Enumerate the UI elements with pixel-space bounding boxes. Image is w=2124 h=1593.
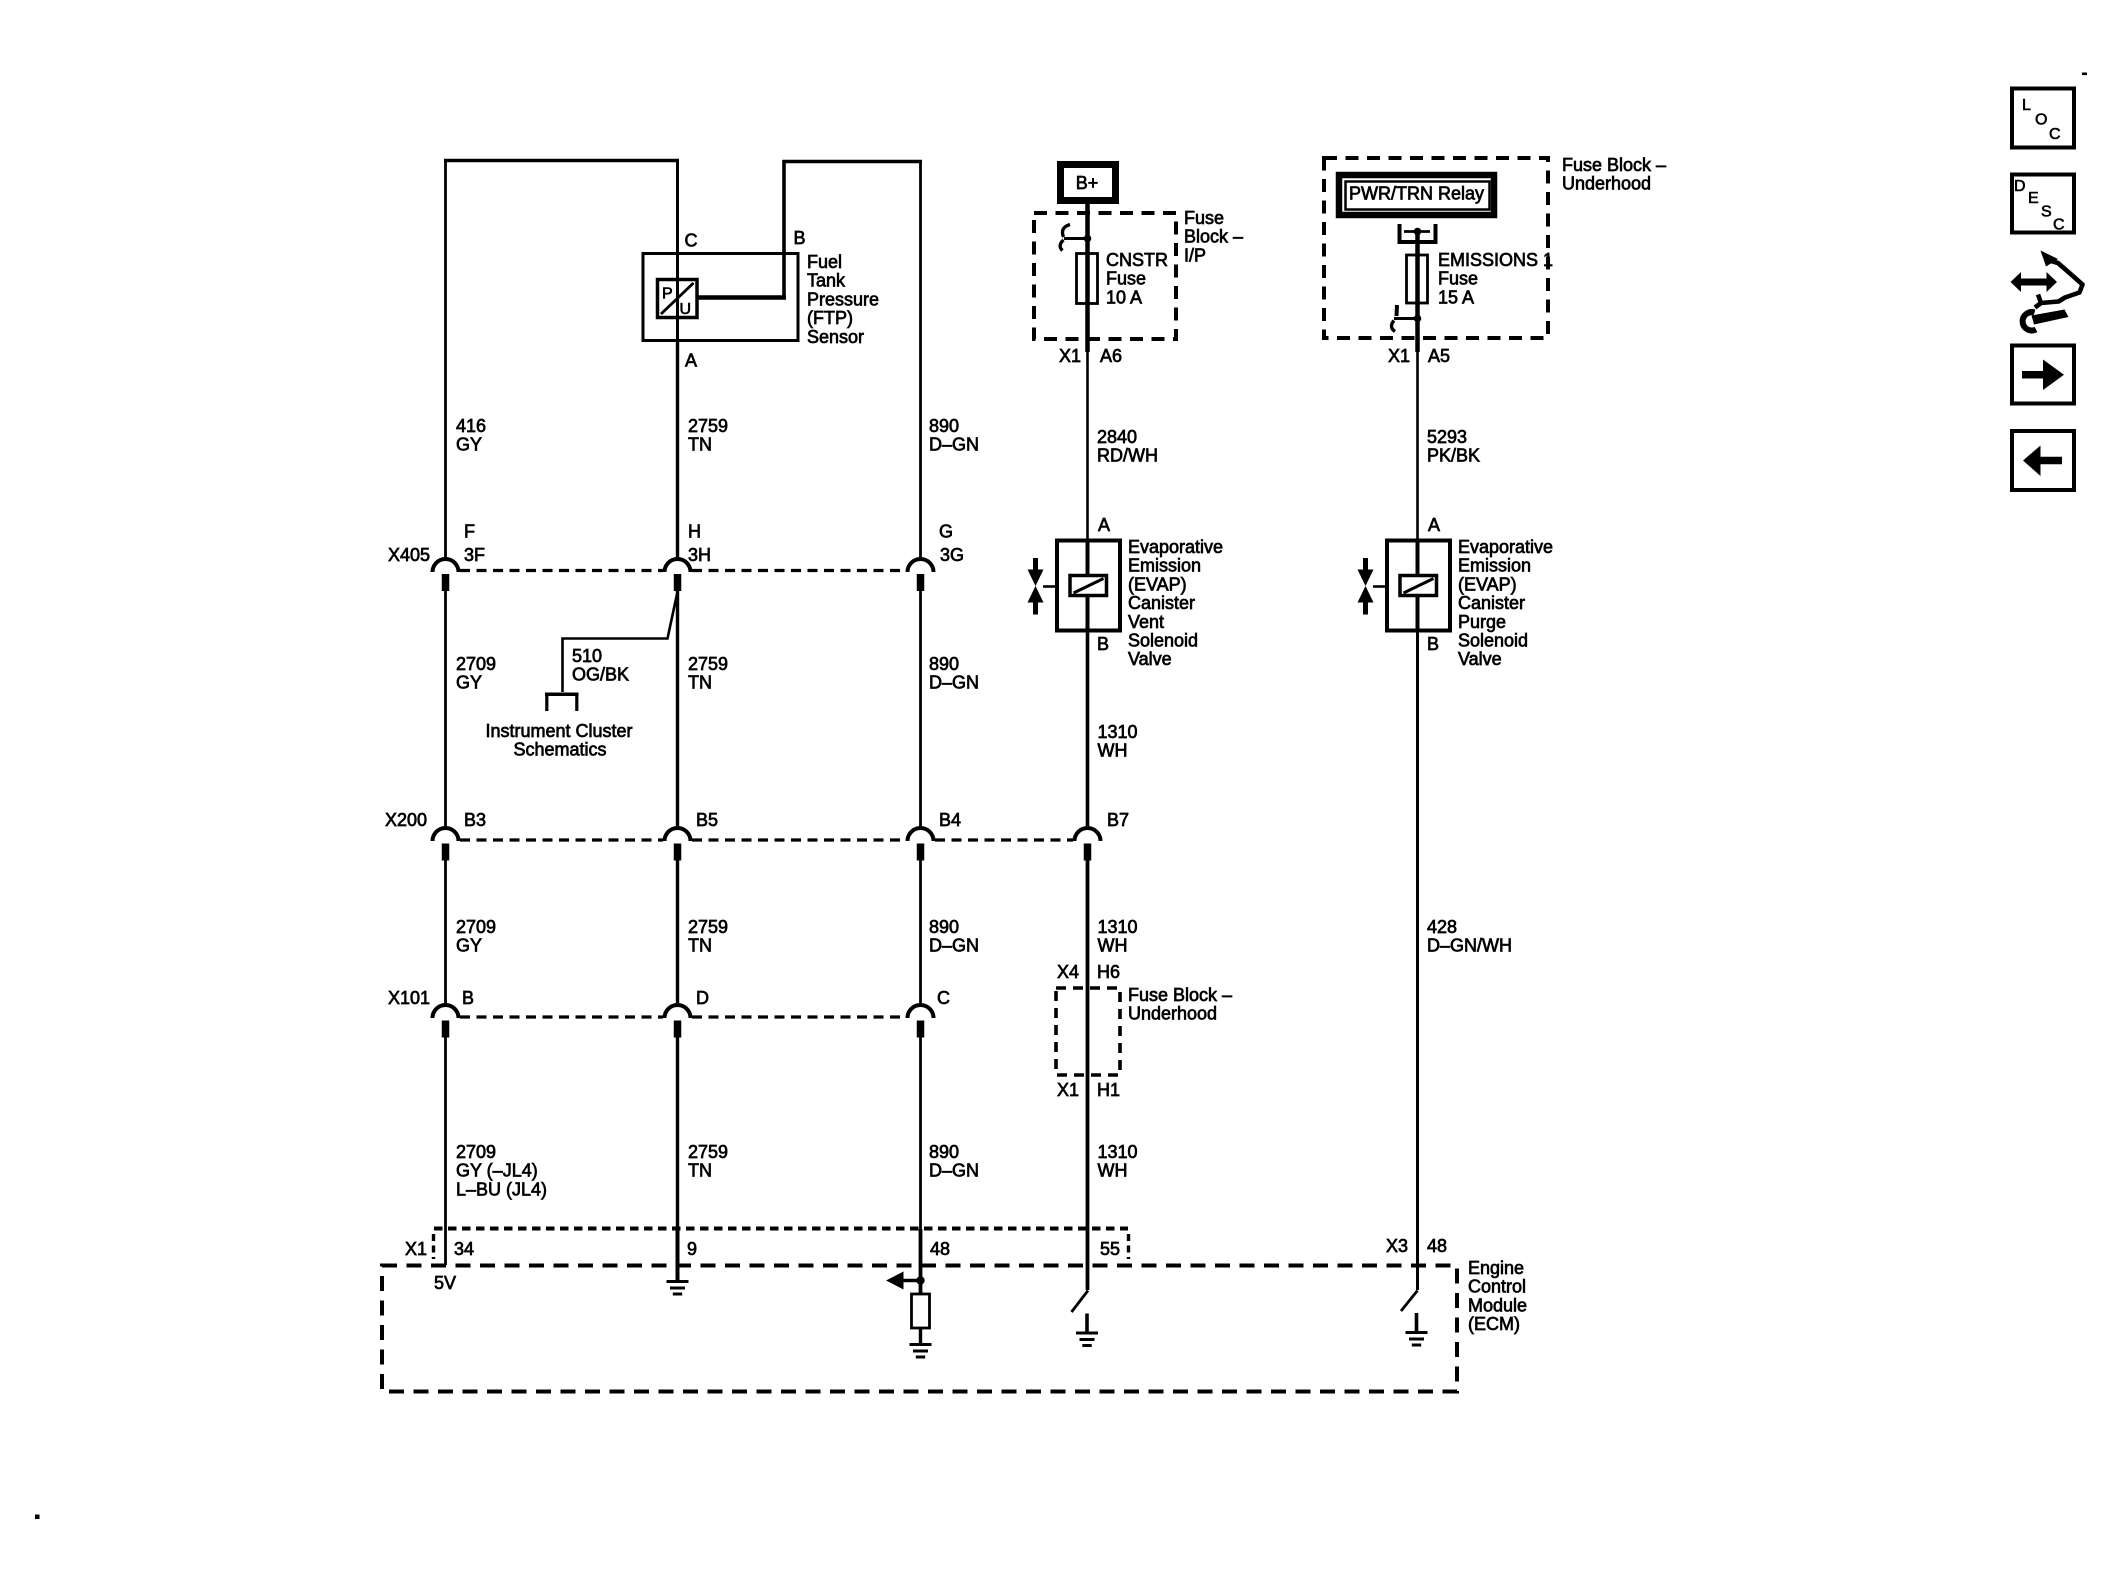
fuse EMISSIONS 1 15 A (1407, 255, 1428, 303)
ECM X1 connector end ticks (432, 1234, 435, 1259)
svg-text:A5: A5 (1428, 346, 1450, 366)
svg-text:X1: X1 (405, 1239, 427, 1259)
svg-text:890: 890 (929, 654, 959, 674)
svg-text:(EVAP): (EVAP) (1458, 574, 1517, 594)
wire through vent solenoid (1086, 541, 1090, 631)
fuel tank pressure sensor box (643, 254, 798, 341)
svg-text:B4: B4 (939, 810, 961, 830)
power feed B+ box (1061, 165, 1116, 201)
connector X101 pin B arc (433, 1005, 459, 1018)
fuse holder clip (bottom of EMISSIONS fuse) (1395, 305, 1400, 316)
svg-text:5293: 5293 (1427, 427, 1467, 447)
svg-text:OG/BK: OG/BK (572, 665, 629, 685)
svg-text:1310: 1310 (1098, 1142, 1138, 1162)
svg-text:1310: 1310 (1098, 917, 1138, 937)
svg-text:Valve: Valve (1128, 649, 1172, 669)
PWR/TRN relay box (1339, 175, 1494, 215)
svg-text:2709: 2709 (456, 1142, 496, 1162)
svg-text:Fuse Block –: Fuse Block – (1128, 985, 1232, 1005)
svg-text:(EVAP): (EVAP) (1128, 574, 1187, 594)
svg-text:Module: Module (1468, 1295, 1527, 1315)
svg-text:RD/WH: RD/WH (1097, 446, 1158, 466)
svg-text:Evaporative: Evaporative (1128, 537, 1223, 557)
svg-text:X1: X1 (1388, 346, 1410, 366)
connector X405 pin F arc (433, 559, 459, 572)
svg-text:2759: 2759 (688, 1142, 728, 1162)
svg-text:H: H (688, 522, 701, 542)
svg-text:U: U (680, 301, 692, 318)
wire B+ to fuse (1085, 204, 1090, 352)
svg-text:Engine: Engine (1468, 1258, 1524, 1278)
svg-text:Control: Control (1468, 1277, 1526, 1297)
wire 2759 TN W2 (676, 860, 679, 1006)
wire 1310 WH below B7 (1086, 860, 1090, 1290)
wire 2709 GY W1 (444, 860, 447, 1006)
ECM X1 connector dotted line (434, 1227, 1128, 1231)
X200 pin terminals (442, 844, 450, 861)
connector X101 pin C arc (908, 1005, 934, 1018)
wire 2759 TN W2 (676, 591, 679, 829)
EVAP canister vent solenoid valve box (1057, 541, 1120, 631)
EVAP canister purge solenoid valve box (1387, 541, 1450, 631)
wire 890 D-GN W3 (919, 591, 922, 829)
off-page connector bracket (instrument cluster) (545, 693, 579, 697)
svg-text:L: L (2022, 97, 2031, 114)
wire pin B vertical into sensor (782, 160, 786, 299)
svg-text:WH: WH (1098, 741, 1128, 761)
svg-text:48: 48 (930, 1239, 950, 1259)
internal resistor at ECM pin 48 (919, 1229, 923, 1294)
icon box DESC (2012, 175, 2074, 233)
fuse block underhood pass-through dashed box (1056, 988, 1120, 1075)
svg-text:PK/BK: PK/BK (1427, 446, 1480, 466)
svg-text:TN: TN (688, 1161, 712, 1181)
svg-text:890: 890 (929, 416, 959, 436)
svg-text:CNSTR: CNSTR (1106, 250, 1168, 270)
svg-text:55: 55 (1100, 1239, 1120, 1259)
svg-text:3F: 3F (464, 545, 485, 565)
svg-text:F: F (464, 522, 475, 542)
solenoid coil (vent) (1070, 576, 1107, 596)
icon: schematic jump (arrows and wrench) (2011, 251, 2083, 331)
svg-text:A: A (685, 351, 697, 371)
svg-text:48: 48 (1427, 1236, 1447, 1256)
svg-text:Fuel: Fuel (807, 252, 842, 272)
connector X405 pin H arc (665, 559, 691, 572)
svg-text:3G: 3G (940, 545, 964, 565)
svg-text:D: D (696, 988, 709, 1008)
svg-text:Purge: Purge (1458, 612, 1506, 632)
svg-text:B5: B5 (696, 810, 718, 830)
svg-text:B3: B3 (464, 810, 486, 830)
wire 1310 WH (1086, 631, 1090, 829)
svg-text:Evaporative: Evaporative (1458, 537, 1553, 557)
svg-text:2759: 2759 (688, 416, 728, 436)
svg-text:P: P (662, 286, 673, 303)
svg-text:Solenoid: Solenoid (1458, 631, 1528, 651)
svg-text:Instrument Cluster: Instrument Cluster (485, 721, 632, 741)
svg-text:A: A (1428, 515, 1440, 535)
svg-text:Emission: Emission (1458, 556, 1531, 576)
wire 2709 GY W1 (444, 591, 447, 829)
svg-text:WH: WH (1098, 1161, 1128, 1181)
connector X200 pin B7 arc (1075, 828, 1101, 841)
ECM dashed box (382, 1266, 1457, 1392)
svg-text:TN: TN (688, 435, 712, 455)
fuse CNSTR 10 A (1077, 254, 1098, 304)
P/U transducer cell U1 (658, 280, 698, 318)
wire 2759 TN W2 (676, 1037, 679, 1229)
svg-text:Schematics: Schematics (513, 740, 606, 760)
junction dot (1084, 235, 1092, 243)
svg-text:TN: TN (688, 936, 712, 956)
connector X200 pin B3 arc (433, 828, 459, 841)
svg-text:2709: 2709 (456, 654, 496, 674)
svg-text:D–GN: D–GN (929, 936, 979, 956)
switch at ECM pin X3-48 (1401, 1291, 1418, 1312)
svg-text:TN: TN (688, 673, 712, 693)
wire 2759 TN pin A below sensor (676, 340, 679, 559)
connector X200 dashed line (460, 838, 663, 841)
svg-text:X200: X200 (385, 810, 427, 830)
svg-text:416: 416 (456, 416, 486, 436)
svg-text:C: C (937, 988, 950, 1008)
connector X405 dashed line (460, 569, 663, 572)
svg-text:Valve: Valve (1458, 649, 1502, 669)
splice branch 510 OG/BK to instrument cluster (563, 594, 678, 692)
svg-text:Fuse: Fuse (1438, 269, 1478, 289)
svg-text:Sensor: Sensor (807, 327, 864, 347)
svg-text:Emission: Emission (1128, 556, 1201, 576)
svg-text:E: E (2028, 190, 2039, 207)
wire 890 D-GN W3 (919, 1037, 922, 1229)
connector X200 pin B5 arc (665, 828, 691, 841)
wire: top link 890 D-GN loop from pin B (783, 160, 923, 164)
ground below resistor (910, 1343, 932, 1346)
svg-text:1310: 1310 (1098, 722, 1138, 742)
connector X405 pin G arc (908, 559, 934, 572)
svg-text:O: O (2035, 112, 2047, 129)
svg-text:3H: 3H (688, 545, 711, 565)
wire 416 GY vertical (left) (444, 159, 447, 559)
fuse block underhood dashed box (1324, 158, 1548, 338)
ground at ECM pin 9 (676, 1229, 680, 1281)
svg-text:34: 34 (454, 1239, 474, 1259)
svg-text:Canister: Canister (1458, 593, 1525, 613)
icon box arrow right (2012, 346, 2074, 404)
svg-text:B7: B7 (1107, 810, 1129, 830)
svg-text:WH: WH (1098, 936, 1128, 956)
svg-text:Vent: Vent (1128, 612, 1164, 632)
wire through purge solenoid (1416, 541, 1420, 631)
svg-text:Canister: Canister (1128, 593, 1195, 613)
svg-text:Underhood: Underhood (1562, 174, 1651, 194)
fuse block I/P dashed box (1034, 213, 1176, 339)
icon box arrow left (2012, 431, 2074, 490)
svg-text:2709: 2709 (456, 917, 496, 937)
valve symbol (purge) (1363, 558, 1368, 571)
svg-text:X1: X1 (1057, 1080, 1079, 1100)
svg-text:X1: X1 (1059, 346, 1081, 366)
svg-text:B: B (462, 988, 474, 1008)
svg-text:GY: GY (456, 673, 482, 693)
svg-text:PWR/TRN Relay: PWR/TRN Relay (1349, 184, 1484, 204)
wire 5293 PK/BK (1416, 352, 1419, 541)
connector X101 pin D arc (665, 1005, 691, 1018)
wire 2759 TN from pin C down through sensor (676, 159, 679, 341)
connector X200 pin B4 arc (908, 828, 934, 841)
svg-text:C: C (2049, 126, 2061, 143)
svg-text:Pressure: Pressure (807, 289, 879, 309)
svg-text:2759: 2759 (688, 654, 728, 674)
relay terminal bracket (1398, 224, 1402, 242)
svg-text:GY: GY (456, 936, 482, 956)
svg-text:Block –: Block – (1184, 227, 1243, 247)
wire relay to fuse (1415, 231, 1420, 352)
svg-text:H6: H6 (1097, 962, 1120, 982)
wire 2709 GY/L-BU W1 (444, 1037, 447, 1265)
svg-text:Fuse: Fuse (1106, 269, 1146, 289)
svg-text:D–GN: D–GN (929, 435, 979, 455)
svg-text:H1: H1 (1097, 1080, 1120, 1100)
svg-text:A6: A6 (1100, 346, 1122, 366)
fuse holder clip (top of CNSTR fuse) (1062, 225, 1070, 238)
svg-text:Fuse Block –: Fuse Block – (1562, 155, 1666, 175)
svg-text:C: C (2053, 217, 2065, 234)
svg-text:(ECM): (ECM) (1468, 1314, 1520, 1334)
wire: top link 416 GY from FTP sensor pin C loop (444, 159, 679, 163)
signal arrow at pin 48 (901, 1279, 918, 1283)
svg-text:890: 890 (929, 917, 959, 937)
svg-text:D–GN: D–GN (929, 673, 979, 693)
svg-text:X4: X4 (1057, 962, 1079, 982)
svg-text:D: D (2014, 178, 2026, 195)
icon box LOC (2012, 89, 2074, 148)
svg-text:GY: GY (456, 435, 482, 455)
svg-text:GY (–JL4): GY (–JL4) (456, 1161, 538, 1181)
connector X101 dashed line (460, 1015, 663, 1018)
wire 890 D-GN vertical (right) (919, 160, 922, 559)
resistor R (912, 1294, 930, 1328)
svg-text:Tank: Tank (807, 271, 846, 291)
X101 pin terminals (442, 1021, 450, 1038)
svg-text:428: 428 (1427, 917, 1457, 937)
svg-text:B+: B+ (1076, 173, 1099, 193)
svg-text:D–GN/WH: D–GN/WH (1427, 936, 1512, 956)
tiny mark bottom left (35, 1515, 40, 1520)
tiny tick mark top right (2082, 73, 2087, 76)
switch at ECM pin 55 (1072, 1291, 1089, 1313)
wire 890 D-GN W3 (919, 860, 922, 1006)
X405 pin terminals (442, 574, 450, 591)
svg-text:Underhood: Underhood (1128, 1004, 1217, 1024)
ground at pin 55 (1085, 1314, 1089, 1333)
ground at pin X3-48 (1415, 1313, 1419, 1332)
solenoid coil (purge) (1400, 576, 1437, 596)
svg-text:10 A: 10 A (1106, 287, 1142, 307)
wire 2840 RD/WH (1086, 352, 1089, 541)
svg-text:EMISSIONS 1: EMISSIONS 1 (1438, 250, 1553, 270)
svg-text:B: B (1427, 634, 1439, 654)
svg-text:L–BU (JL4): L–BU (JL4) (456, 1179, 547, 1199)
svg-text:9: 9 (687, 1239, 697, 1259)
svg-text:Fuse: Fuse (1184, 208, 1224, 228)
svg-text:X3: X3 (1386, 1236, 1408, 1256)
svg-text:X405: X405 (388, 545, 430, 565)
svg-text:890: 890 (929, 1142, 959, 1162)
svg-text:S: S (2041, 204, 2052, 221)
svg-text:B: B (1097, 634, 1109, 654)
svg-text:I/P: I/P (1184, 245, 1206, 265)
svg-text:15 A: 15 A (1438, 287, 1474, 307)
valve symbol (vent) (1033, 558, 1038, 571)
svg-text:A: A (1098, 515, 1110, 535)
svg-text:C: C (685, 231, 698, 251)
svg-text:Solenoid: Solenoid (1128, 631, 1198, 651)
svg-text:D–GN: D–GN (929, 1161, 979, 1181)
svg-text:(FTP): (FTP) (807, 308, 853, 328)
svg-text:G: G (939, 522, 953, 542)
svg-text:B: B (794, 228, 806, 248)
svg-text:2840: 2840 (1097, 427, 1137, 447)
wire 428 D-GN/WH (1416, 631, 1419, 1290)
wire link P/U cell to pin B inside sensor (696, 295, 786, 300)
svg-text:X101: X101 (388, 988, 430, 1008)
svg-text:5V: 5V (434, 1273, 456, 1293)
svg-text:2759: 2759 (688, 917, 728, 937)
svg-text:510: 510 (572, 646, 602, 666)
